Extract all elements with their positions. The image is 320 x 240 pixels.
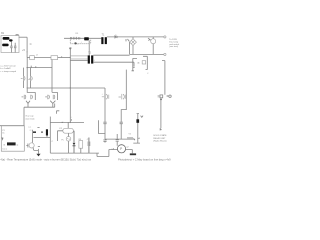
junction marks on feed (62, 122, 63, 123)
capacitor C3 (14, 43, 16, 53)
resistor R3 (primary) (70, 56, 88, 59)
node B junction dot (70, 57, 71, 58)
transistor Q4 (45, 95, 49, 99)
wire Q1 leads (22, 68, 24, 88)
diode D1 ticks (71, 37, 78, 40)
transistor Q3 (22, 95, 26, 99)
relay box K1 left edge (49, 117, 51, 153)
junction dot +5 (27, 51, 28, 52)
capacitor C9 dot (74, 42, 77, 44)
wire tick (160, 128, 162, 130)
wire T2 secondary bottom (93, 61, 134, 63)
lamp PL1 (66, 137, 71, 142)
terminal circle top (164, 36, 166, 38)
relay box K1 bottom rail (50, 152, 99, 154)
wire Q3 emitters to rail (26, 101, 30, 108)
svg-text:b = 1mA/K: b = 1mA/K (0, 67, 11, 70)
wire R1 to R2 (34, 57, 51, 59)
capacitor C1 blob (9, 39, 13, 41)
wire Q5 vertical (104, 88, 106, 122)
wire B1 to +5 node (19, 36, 27, 38)
diode D3 marks (126, 39, 129, 41)
meter box note (2, 130, 4, 135)
svg-text:+: + (102, 93, 104, 95)
transistor Q3 frame (27, 92, 35, 100)
svg-text:T1: T1 (102, 35, 105, 37)
junction dot coil feed (70, 122, 71, 123)
svg-text:P: P (120, 147, 123, 151)
svg-text:-c: -c (147, 73, 149, 75)
transistor Q3 pair (31, 95, 33, 99)
resistor R9 (79, 141, 83, 149)
inductor L1 blob (84, 37, 89, 40)
label dark dash (33, 131, 36, 133)
bracket mark (57, 111, 60, 114)
capacitor C5 (120, 122, 123, 139)
wire relay rail (105, 138, 135, 140)
svg-text:B1: B1 (1, 32, 5, 35)
wire crystal branch (31, 130, 33, 143)
wire top edge to meter box (0, 125, 24, 127)
transistor Q6 (119, 94, 126, 100)
wire left drop to relay box (23, 107, 25, 126)
svg-text:+: + (71, 117, 73, 119)
svg-text:+: + (50, 116, 52, 118)
battery pack B1 box (1, 36, 19, 53)
wire right main vertical (162, 61, 165, 95)
svg-text:Y2: Y2 (128, 133, 131, 135)
text note left (0, 65, 16, 73)
relay contact lower wire (133, 137, 140, 144)
wire cluster to relay box (34, 136, 51, 138)
svg-text:+c: +c (51, 141, 53, 143)
wire lamp down (68, 141, 70, 153)
SCR Q8 leads (152, 37, 154, 55)
relay contact wire (127, 137, 133, 139)
wire node +5 to R1 (27, 57, 30, 59)
motor M1 (117, 145, 125, 153)
crystal X1 blob (46, 129, 48, 135)
svg-text:Photodetect + C.May board on: Photodetect + C.May board on line dwg x-… (118, 157, 171, 161)
wire lower rail (24, 104, 55, 108)
wire bridge bottom down (132, 46, 134, 55)
svg-text:K1: K1 (59, 128, 62, 130)
transistor Q4 frame (52, 92, 58, 100)
relay contact arm tick (133, 139, 135, 141)
svg-text:4(a) - Rear Temperature (5x9: 4(a) - Rear Temperature (5x9) mode - aut… (0, 157, 91, 161)
wire bridge top stub (132, 37, 134, 39)
svg-text:c = temp.compd: c = temp.compd (0, 70, 16, 73)
svg-text:PL: PL (61, 139, 64, 141)
transistor Q7 base marks (26, 144, 28, 148)
relay box K1 right edge (99, 120, 106, 133)
text note right top (169, 39, 180, 48)
battery cell 2 (2, 44, 8, 47)
wire T2 secondary top (93, 54, 129, 56)
text note see text (26, 116, 35, 121)
svg-text:SOLID STATE: SOLID STATE (153, 134, 167, 137)
wire jog down (133, 62, 134, 68)
tick marks on bias rail (31, 66, 36, 68)
wire coil to lamp (68, 133, 70, 136)
resistor R2 (51, 56, 58, 60)
SCR Q8 gate marks (148, 38, 151, 41)
diode D2 (115, 36, 117, 38)
transformer T1 core bars (101, 37, 103, 44)
svg-text:+: + (94, 59, 96, 61)
relay coil K1 (63, 128, 74, 133)
svg-text:(Radio Shack): (Radio Shack) (153, 140, 166, 142)
wire R2 to node A (58, 57, 71, 59)
antenna node Y top (69, 47, 71, 49)
svg-text:D1: D1 (76, 33, 80, 35)
svg-text:C: C (30, 42, 32, 46)
wire motor to ground (126, 150, 133, 154)
wire crystal stub (46, 136, 48, 138)
wire C8 vertical (137, 114, 139, 137)
meter box M2 (1, 126, 24, 152)
text note rc (28, 127, 31, 132)
svg-text:+c: +c (29, 130, 31, 132)
capacitor C8 blob (136, 119, 139, 123)
junction dot crystal (41, 131, 43, 133)
diode D4 (73, 131, 76, 153)
transistor Q2 (29, 76, 33, 81)
svg-text:a = 5mV sensor: a = 5mV sensor (0, 65, 16, 68)
wire top rail left (64, 37, 101, 39)
tick on rail (61, 56, 63, 57)
transistor Q4 pair (53, 95, 55, 99)
wire Q2 leads (30, 68, 32, 88)
meter display D5 (7, 142, 16, 145)
svg-text:7(: 7( (3, 144, 5, 146)
capacitor C6 (116, 134, 119, 146)
svg-text:8 oz cup: 8 oz cup (26, 116, 35, 118)
transistor Q1 (21, 76, 25, 80)
wire rail bias (27, 67, 52, 69)
node A junction dot (70, 87, 71, 88)
svg-text:x): x) (16, 144, 18, 146)
svg-text:+5: +5 (22, 49, 25, 52)
wire bridge left down (129, 42, 131, 54)
wire mid rail (27, 87, 105, 89)
SCR Q8 (151, 39, 156, 44)
wire left supply vertical (26, 58, 28, 93)
wire Q4 emitters to rail (50, 101, 55, 108)
capacitor C7 (88, 138, 90, 154)
svg-text:r2: r2 (36, 55, 39, 57)
junction dot bias (27, 67, 28, 68)
wire bottom rail right (130, 53, 164, 55)
ground G1 (36, 154, 40, 157)
wire coil left (58, 131, 63, 141)
wire coil top lead (67, 122, 69, 128)
lamp PL1 dots (66, 137, 69, 140)
lamp terminal box (160, 95, 163, 98)
switch S1 box (142, 61, 146, 64)
svg-text:x2: x2 (126, 146, 129, 148)
wire right lower vertical (160, 98, 162, 128)
switch S1 corner (132, 58, 138, 70)
wire long vertical node A (69, 49, 71, 122)
svg-text:1xx x: 1xx x (2, 148, 7, 150)
wire L1 down to T2 (88, 40, 90, 55)
wire coil feed (50, 121, 84, 123)
text note solid state (153, 134, 167, 142)
wire S1 right vertical (143, 56, 147, 69)
transistor Q7 (29, 143, 34, 148)
dashed wire (70, 40, 90, 44)
wire Q6 collector vertical (125, 70, 127, 101)
ground G1 stem (37, 149, 39, 154)
svg-text:4b: 4b (137, 62, 140, 64)
bridge rectifier BR1 (130, 39, 137, 46)
svg-text:RELAY UNIT: RELAY UNIT (153, 137, 166, 140)
box notch (16, 34, 18, 37)
transformer T2 core bars (88, 55, 90, 63)
ground G2 (130, 153, 136, 155)
capacitor C4 (103, 122, 106, 142)
tick mark V (2, 137, 3, 139)
wire into crystal (37, 127, 39, 129)
capacitor C8 top mark (141, 116, 143, 118)
resistor R1 (30, 56, 35, 60)
wire primary lower (70, 60, 87, 62)
svg-text:(see text): (see text) (169, 45, 178, 48)
diode D1b ticks (79, 37, 80, 39)
wire into motor (97, 150, 117, 157)
wire Q7 emitter (33, 148, 38, 151)
wire top rail right (107, 36, 164, 38)
battery cell 1 (3, 37, 10, 40)
wire entering box (71, 119, 73, 120)
tick near ground (38, 145, 40, 147)
resistor R9 lead (80, 148, 82, 153)
capacitor C2 (10, 42, 12, 53)
terminal circle bottom (164, 53, 166, 55)
transistor Q5 (102, 94, 109, 100)
wire Q6 emitter jog (121, 101, 126, 122)
wire +5 vertical (26, 37, 28, 57)
svg-text:(see text): (see text) (26, 118, 35, 121)
lamp circle small (169, 95, 171, 97)
svg-text:1k: 1k (2, 133, 4, 135)
svg-text:T2: T2 (88, 53, 91, 55)
wire R2 branch vertical (51, 60, 53, 93)
svg-text:a c: a c (28, 127, 31, 129)
